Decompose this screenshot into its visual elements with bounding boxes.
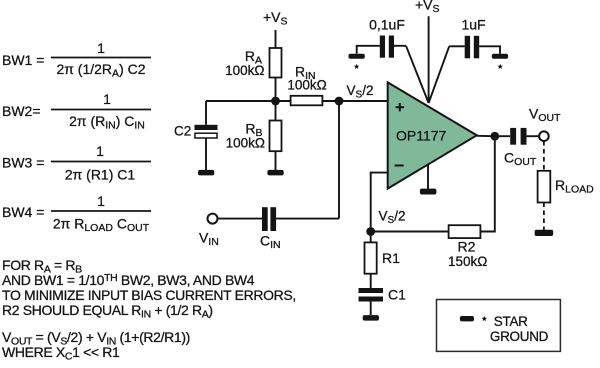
wire C1 to ground (370, 302, 372, 316)
wire node D to COUT (495, 135, 510, 137)
wire op-amp - input to node C (371, 173, 388, 232)
star ground (right bypass) (492, 54, 508, 59)
wire 1uF left to bend (449, 45, 465, 47)
input terminal VIN (208, 214, 218, 224)
output terminal VOUT (539, 131, 549, 141)
resistor RLOAD (538, 171, 551, 203)
svg-text:C1: C1 (388, 287, 406, 303)
wire CIN to op-amp branch (276, 218, 339, 220)
node A junction dot (271, 97, 280, 106)
ground (op-amp) (420, 189, 437, 195)
svg-text:AND BW1 = 1/10TH BW2, BW3, AND: AND BW1 = 1/10TH BW2, BW3, AND BW4 (2, 272, 255, 288)
wire 0.1uF right to bend (394, 45, 406, 47)
wire COUT to VOUT terminal (527, 135, 540, 137)
wire 0.1uF left to star ground (357, 46, 380, 54)
op-amp U1 OP1177 (388, 82, 477, 188)
wire VIN to CIN (218, 218, 263, 220)
wire op-amp output to node D (477, 135, 495, 137)
svg-text:1: 1 (97, 193, 105, 209)
svg-text:BW4 =: BW4 = (2, 204, 44, 220)
legend star marker (482, 316, 488, 321)
svg-text:100kΩ: 100kΩ (225, 63, 264, 78)
svg-text:2π (R1) C1: 2π (R1) C1 (65, 167, 136, 183)
wire node A to RB (275, 101, 277, 121)
node D junction dot (output) (490, 132, 499, 141)
capacitor CIN (262, 207, 276, 231)
svg-text:0,1uF: 0,1uF (369, 17, 405, 33)
wire diagonal from 1uF cap to V+ pin (429, 46, 450, 103)
ground (RLOAD) (535, 230, 554, 236)
capacitor 0.1uF bypass (380, 36, 394, 58)
capacitor C1 (359, 288, 384, 302)
wire R2 to output node (feedback) (480, 136, 494, 231)
svg-text:100kΩ: 100kΩ (287, 78, 326, 93)
svg-text:GROUND: GROUND (490, 329, 549, 344)
minus input symbol (395, 165, 404, 167)
svg-text:1: 1 (97, 40, 105, 56)
wire dashed VOUT to RLOAD (543, 141, 545, 171)
wire RA to node A (275, 78, 277, 102)
svg-text:R1: R1 (382, 250, 400, 266)
resistor RA (270, 48, 282, 78)
star marker (left) (354, 64, 360, 69)
star marker (right) (497, 64, 503, 69)
svg-text:BW2=: BW2= (2, 103, 41, 119)
ground (RB) (267, 170, 283, 176)
svg-text:STAR: STAR (494, 314, 528, 329)
wire C2 branch down from main wire (205, 101, 207, 125)
svg-text:WHERE XC1 << R1: WHERE XC1 << R1 (2, 344, 120, 363)
formula BW4 (2, 193, 151, 234)
node B junction dot (VS/2) (335, 97, 344, 106)
legend box star ground (437, 300, 561, 352)
svg-text:2π (1/2RA) C2: 2π (1/2RA) C2 (56, 61, 145, 80)
capacitor C2 (195, 125, 218, 138)
wire node C to R2 (371, 231, 449, 233)
svg-text:BW3 =: BW3 = (2, 155, 44, 171)
wire C2 to ground (205, 138, 207, 170)
wire +VS to RA (275, 30, 277, 48)
wire diagonal from 0.1uF cap to V+ pin (406, 46, 429, 103)
resistor R2 (449, 225, 481, 238)
wire dashed RLOAD to ground (543, 203, 545, 231)
ground (C2) (198, 170, 214, 176)
notes text block (2, 257, 296, 363)
resistor RIN (291, 96, 323, 106)
wire R1 to C1 (370, 274, 372, 288)
svg-text:1: 1 (103, 91, 111, 107)
svg-text:TO MINIMIZE INPUT BIAS CURRENT: TO MINIMIZE INPUT BIAS CURRENT ERRORS, (2, 287, 296, 303)
plus input symbol (396, 103, 404, 111)
wire node C to R1 (370, 232, 372, 243)
capacitor COUT (510, 128, 526, 145)
formula BW1 (2, 40, 151, 80)
wire RB to ground (275, 151, 277, 170)
capacitor 1uF bypass (465, 36, 479, 59)
legend ground bar (460, 316, 474, 321)
star ground (left bypass) (349, 54, 365, 59)
resistor RB (270, 121, 282, 152)
svg-text:R2: R2 (458, 239, 476, 255)
wire op-amp V- pin to ground (427, 164, 429, 190)
svg-text:1: 1 (96, 143, 104, 159)
wire node B down to CIN line (338, 101, 340, 219)
formula BW3 (2, 143, 151, 183)
svg-text:C2: C2 (174, 124, 191, 139)
svg-text:R2 SHOULD EQUAL RIN + (1/2 RA): R2 SHOULD EQUAL RIN + (1/2 RA) (2, 302, 213, 321)
formula BW2 (2, 91, 151, 132)
wire main horizontal (C2 branch to RIN) (206, 100, 291, 102)
svg-text:1uF: 1uF (461, 17, 485, 33)
svg-text:150kΩ: 150kΩ (448, 254, 487, 269)
wire node B to op-amp + input (339, 100, 388, 102)
svg-text:OP1177: OP1177 (396, 128, 447, 144)
wire 1uF right to star ground (479, 46, 500, 54)
wire +VS down to op-amp V+ pin (428, 16, 430, 103)
svg-text:100kΩ: 100kΩ (226, 136, 265, 151)
svg-text:BW1 =: BW1 = (2, 52, 44, 68)
resistor R1 (365, 242, 377, 273)
wire RIN to node B (322, 100, 339, 102)
ground (C1) (363, 315, 379, 321)
node C junction dot (VS/2) (366, 227, 375, 236)
